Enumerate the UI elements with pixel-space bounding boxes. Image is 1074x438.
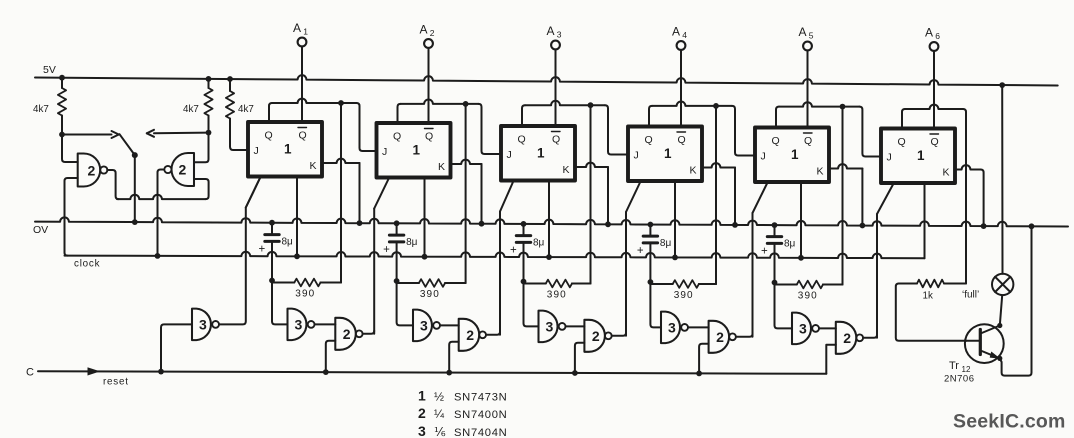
wire A4 to Qbar — [680, 50, 682, 127]
label clock — [74, 259, 100, 270]
wire FF6 clock pin riser — [924, 182, 926, 184]
wire gate 2 output stage 4 — [736, 334, 753, 337]
terminal A5 circle — [803, 42, 812, 51]
svg-text:2: 2 — [716, 329, 724, 345]
flip-flop 1 (SN7473 half) box — [248, 122, 322, 177]
wire clock to FF4 clock pin — [674, 181, 676, 257]
wire 5V to lamp — [1001, 85, 1003, 274]
svg-text:J: J — [382, 146, 387, 158]
NAND gate 3 stage 5 — [792, 313, 819, 345]
svg-text:¼: ¼ — [434, 407, 445, 421]
svg-text:Q: Q — [804, 135, 812, 147]
flip-flop 5 labels — [761, 133, 824, 178]
terminal A4 circle — [677, 41, 686, 50]
svg-text:1: 1 — [284, 142, 292, 157]
svg-text:2: 2 — [88, 163, 96, 179]
svg-text:8μ: 8μ — [660, 238, 672, 249]
label R4 390 — [674, 290, 694, 301]
transistor Tr12 2N706 — [965, 323, 1004, 363]
svg-text:SN7473N: SN7473N — [454, 392, 507, 404]
svg-text:3: 3 — [799, 320, 807, 336]
flip-flop 3 labels — [507, 132, 570, 177]
svg-text:Tr: Tr — [949, 360, 959, 372]
wire Q2 output bus to J of FF3 — [398, 100, 502, 155]
wire C3 junction to gate 3 input — [524, 282, 539, 327]
wire Q5 output bus to J of FF6 — [776, 102, 881, 156]
flip-flop 2 labels — [382, 129, 445, 174]
wire gate 2 output stage 5 — [863, 335, 877, 338]
switch S1 left contact wire — [62, 131, 119, 138]
svg-text:K: K — [690, 165, 697, 177]
wire gate 2 output stage 2 — [486, 332, 500, 335]
label C4 8u — [660, 238, 672, 249]
wire Q1 junction down to R1 390 — [321, 103, 342, 283]
label R2 4k7 — [183, 104, 199, 115]
wire A6 to Qbar — [933, 51, 935, 129]
wire K1 to 0V — [322, 159, 360, 223]
wire clock to FF5 clock pin — [800, 182, 802, 258]
wire C4 junction to gate 3 input — [650, 282, 661, 327]
label gate 2 stage 2 — [466, 327, 474, 343]
label gate 2b — [179, 162, 187, 178]
terminal A1 circle — [298, 38, 307, 47]
wire Q2 junction down to R2 390 — [445, 104, 466, 283]
wire 1k to base — [896, 284, 967, 341]
wire crossover to gate 2b lower input — [117, 179, 209, 199]
svg-text:6: 6 — [935, 31, 940, 41]
wire Q4 output bus to J of FF5 — [649, 101, 755, 155]
wire Q4 junction down to R4 390 — [699, 106, 716, 284]
lamp 'full' — [992, 274, 1013, 295]
wire C2 junction to gate 3 input — [397, 281, 413, 325]
svg-text:3: 3 — [295, 316, 303, 332]
wire Q1 output bus to J of FF2 — [269, 99, 377, 151]
wire A3 to Qbar — [555, 49, 557, 126]
svg-text:J: J — [887, 152, 892, 164]
wire FF5 clr from gate 2 stage 4 — [753, 184, 768, 337]
svg-text:SeekIC.com: SeekIC.com — [953, 411, 1066, 433]
label A5 — [799, 25, 814, 41]
wire K2 to 0V — [451, 160, 482, 224]
resistor R 1k — [899, 280, 966, 288]
wire K6 to 0V — [955, 165, 984, 226]
NAND gate 2 stage 4 — [709, 321, 736, 353]
svg-text:2: 2 — [430, 28, 435, 38]
resistor R2 4k7 — [204, 79, 212, 136]
label R1 390 — [295, 289, 315, 300]
capacitor C4 8u — [643, 225, 657, 285]
resistor R1 390 — [272, 279, 341, 287]
svg-text:K: K — [817, 166, 824, 178]
wire 5V supply rail — [35, 75, 1058, 88]
wire reset riser stage 2 — [449, 342, 459, 373]
wire K3 to 0V — [575, 163, 608, 225]
wire gate 3a output to FF1 clr — [219, 178, 260, 324]
resistor R2 390 — [397, 279, 466, 287]
watermark SeekIC.com — [953, 411, 1066, 433]
svg-text:3: 3 — [418, 423, 426, 438]
NAND gate 2 stage 2 — [459, 319, 486, 351]
NAND gate 3 stage 3 — [539, 311, 566, 343]
svg-text:1: 1 — [917, 148, 925, 163]
svg-text:3: 3 — [199, 316, 207, 332]
svg-text:8μ: 8μ — [533, 238, 545, 249]
svg-text:3: 3 — [420, 317, 428, 333]
wire C5 junction to gate 3 input — [775, 283, 793, 329]
wire Q5 junction down to R5 390 — [823, 107, 843, 285]
capacitor C2 8u — [389, 223, 403, 284]
wire clock line — [65, 252, 925, 261]
label C1 plus — [259, 244, 266, 256]
svg-text:5V: 5V — [43, 64, 56, 76]
wire 0V rail — [35, 217, 1068, 229]
switch S1 right contact wire — [147, 130, 209, 137]
label A3 — [547, 24, 562, 40]
legend 1 SN7473N — [418, 388, 507, 404]
svg-text:clock: clock — [74, 259, 100, 270]
svg-text:K: K — [438, 161, 445, 173]
svg-text:1: 1 — [418, 388, 426, 404]
resistor R1 4k7 — [58, 78, 66, 138]
flip-flop 5 (SN7473 half) box — [755, 128, 829, 183]
label 2N706 — [944, 374, 975, 385]
svg-text:J: J — [761, 151, 766, 163]
wire R1 to gate 2a upper input — [62, 135, 78, 163]
svg-text:2: 2 — [179, 162, 187, 178]
svg-text:SN7404N: SN7404N — [454, 427, 507, 438]
label 5V — [43, 64, 56, 76]
wire gate 3 to gate 2 stage 5 — [819, 327, 836, 329]
svg-text:A: A — [547, 24, 555, 38]
label C1 8u — [282, 237, 294, 248]
resistor R3 390 — [524, 280, 591, 288]
capacitor C1 8u — [265, 223, 279, 284]
svg-text:4: 4 — [682, 30, 687, 40]
label A4 — [672, 25, 687, 41]
NAND gate 2b — [164, 153, 194, 186]
label C5 8u — [784, 239, 796, 250]
svg-text:A: A — [799, 25, 807, 39]
svg-text:Q: Q — [552, 134, 560, 146]
capacitor C5 8u — [767, 225, 781, 285]
svg-text:K: K — [310, 160, 317, 172]
wire clock to FF3 clock pin — [548, 181, 550, 258]
svg-text:2N706: 2N706 — [944, 374, 975, 385]
svg-text:Q: Q — [772, 135, 780, 147]
svg-text:2: 2 — [466, 327, 474, 343]
wire gate 3 to gate 2 stage 4 — [688, 326, 709, 328]
svg-text:Q: Q — [299, 130, 307, 142]
wire FF6 clr from gate 2 stage 5 — [877, 185, 893, 338]
svg-text:390: 390 — [547, 290, 567, 301]
resistor R3 4k7 — [226, 79, 234, 147]
resistor R4 390 — [650, 280, 716, 288]
svg-text:+: + — [637, 245, 644, 257]
svg-text:3: 3 — [546, 318, 554, 334]
label R3 4k7 — [238, 104, 254, 115]
label gate 2 stage 3 — [592, 328, 600, 344]
label gate 3 stage 2 — [420, 317, 428, 333]
label C2 plus — [383, 244, 390, 256]
legend 2 SN7400N — [418, 405, 507, 421]
flip-flop 3 (SN7473 half) box — [501, 126, 575, 181]
wire reset riser stage 4 — [699, 344, 709, 374]
wire clock to FF6 clock pin — [924, 183, 926, 258]
label C2 8u — [406, 237, 418, 248]
flip-flop 1 labels — [254, 128, 317, 173]
svg-text:8μ: 8μ — [784, 239, 796, 250]
wire gate 2b output to clock — [158, 170, 165, 256]
label C3 8u — [533, 238, 545, 249]
flip-flop 6 labels — [887, 134, 950, 179]
wire clock to FF1 clock pin — [296, 177, 298, 257]
svg-text:Q: Q — [518, 134, 526, 146]
svg-text:Q: Q — [678, 134, 686, 146]
flip-flop 4 (SN7473 half) box — [628, 127, 702, 182]
label gate 2 stage 4 — [716, 329, 724, 345]
svg-text:J: J — [634, 150, 639, 162]
label R5 390 — [798, 291, 818, 302]
svg-text:3: 3 — [668, 319, 676, 335]
label C5 plus — [761, 246, 768, 258]
svg-text:A: A — [925, 26, 933, 40]
svg-text:390: 390 — [674, 290, 694, 301]
svg-text:Q: Q — [898, 136, 906, 148]
NAND gate 3a reset buffer — [192, 309, 219, 341]
svg-text:A: A — [293, 21, 301, 35]
NAND gate 2 stage 3 — [584, 320, 611, 352]
svg-text:+: + — [761, 246, 768, 258]
label gate 3 stage 5 — [799, 320, 807, 336]
label gate 2 stage 5 — [843, 330, 851, 346]
svg-text:+: + — [510, 245, 517, 257]
NAND gate 2 stage 1 — [335, 318, 362, 350]
wire reset riser stage 1 — [326, 341, 336, 372]
wire R3 to J input FF1 — [230, 147, 248, 151]
svg-text:4k7: 4k7 — [238, 104, 254, 115]
wire reset to gate 3a input — [161, 324, 192, 371]
label C4 plus — [637, 245, 644, 257]
capacitor C3 8u — [516, 224, 530, 285]
wire gate 2a lower input to clock — [65, 178, 78, 256]
svg-text:5: 5 — [809, 31, 814, 41]
wire FF2 clr from gate 2 stage 1 — [374, 179, 388, 334]
flip-flop 4 labels — [634, 132, 697, 177]
svg-text:390: 390 — [798, 291, 818, 302]
resistor R5 390 — [775, 281, 843, 289]
svg-text:K: K — [943, 167, 950, 179]
label reset — [103, 377, 129, 388]
NAND gate 2a — [78, 154, 108, 187]
label 0V — [33, 224, 48, 236]
flip-flop 2 (SN7473 half) box — [377, 123, 451, 178]
label R 1k — [923, 291, 933, 302]
wire FF1 clr diagonal — [246, 178, 260, 208]
label gate 3a — [199, 316, 207, 332]
svg-text:+: + — [383, 244, 390, 256]
NAND gate 3 stage 4 — [661, 312, 688, 344]
svg-text:Q: Q — [265, 130, 273, 142]
label A2 — [420, 23, 435, 39]
terminal A6 circle — [930, 42, 939, 51]
wire C1 junction to gate 3 input — [272, 281, 288, 325]
legend 3 SN7404N — [418, 423, 507, 438]
wire switch common to 0V — [134, 155, 136, 222]
wire gate 3 to gate 2 stage 3 — [566, 325, 585, 327]
label gate 2 stage 1 — [343, 326, 351, 342]
wire K5 to 0V — [829, 164, 862, 225]
label A6 — [925, 26, 940, 42]
svg-text:390: 390 — [420, 289, 440, 300]
svg-text:+: + — [259, 244, 266, 256]
svg-text:SN7400N: SN7400N — [454, 409, 507, 421]
label full — [962, 290, 979, 301]
svg-text:⅙: ⅙ — [434, 425, 446, 438]
svg-text:2: 2 — [343, 326, 351, 342]
svg-text:1: 1 — [413, 143, 421, 158]
svg-text:K: K — [563, 164, 570, 176]
wire A1 to Qbar — [301, 46, 303, 122]
NAND gate 3 stage 2 — [413, 310, 440, 342]
svg-text:OV: OV — [33, 224, 48, 236]
label C3 plus — [510, 245, 517, 257]
wire reset line with arrow — [38, 368, 826, 376]
wire A2 to Qbar — [428, 48, 430, 123]
label R3 390 — [547, 290, 567, 301]
wire gate 3 to gate 2 stage 2 — [440, 324, 459, 326]
svg-text:A: A — [672, 25, 680, 39]
wire FF3 clr from gate 2 stage 2 — [500, 182, 513, 335]
label R1 4k7 — [33, 104, 49, 115]
wire clock to FF2 clock pin — [424, 178, 426, 257]
svg-text:390: 390 — [295, 289, 315, 300]
label R2 390 — [420, 289, 440, 300]
switch S1 arm — [120, 134, 138, 158]
svg-text:1: 1 — [664, 146, 672, 161]
wire Q3 output bus to J of FF4 — [522, 101, 628, 155]
wire reset to gate 2e lower input — [826, 345, 836, 374]
flip-flop 6 (SN7473 half) box — [881, 129, 955, 184]
svg-text:‘full’: ‘full’ — [962, 290, 979, 301]
svg-text:Q: Q — [393, 131, 401, 143]
svg-text:J: J — [507, 149, 512, 161]
svg-text:1: 1 — [303, 27, 308, 37]
NAND gate 3 stage 1 — [288, 309, 315, 341]
wire FF4 clr from gate 2 stage 3 — [626, 183, 640, 336]
svg-text:Q: Q — [645, 134, 653, 146]
svg-text:2: 2 — [843, 330, 851, 346]
label Tr12 — [949, 360, 971, 374]
wire K4 to 0V — [702, 163, 735, 225]
svg-text:1: 1 — [791, 147, 799, 162]
terminal A2 circle — [424, 39, 433, 48]
svg-text:Q: Q — [931, 136, 939, 148]
wire gate 2a output crossover — [107, 170, 118, 199]
label gate 3 stage 1 — [295, 316, 303, 332]
svg-text:J: J — [254, 145, 259, 157]
svg-text:½: ½ — [434, 390, 444, 404]
wire A5 to Qbar — [807, 50, 809, 127]
svg-text:1k: 1k — [923, 291, 933, 302]
svg-text:2: 2 — [418, 405, 426, 421]
label C — [26, 367, 34, 379]
wire gate 3 to gate 2 stage 1 — [315, 323, 336, 325]
wire emitter to 0V — [1000, 226, 1032, 375]
svg-text:3: 3 — [557, 30, 562, 40]
svg-text:Q: Q — [425, 131, 433, 143]
svg-text:reset: reset — [103, 377, 129, 388]
terminal A3 circle — [551, 41, 560, 50]
NAND gate 2 stage 5 — [836, 322, 863, 354]
svg-text:C: C — [26, 367, 34, 379]
wire gate 2 output stage 3 — [612, 333, 626, 336]
wire collector to lamp — [1000, 295, 1002, 325]
svg-text:4k7: 4k7 — [183, 104, 199, 115]
label gate 3 stage 3 — [546, 318, 554, 334]
svg-text:8μ: 8μ — [406, 237, 418, 248]
svg-text:4k7: 4k7 — [33, 104, 49, 115]
svg-text:2: 2 — [592, 328, 600, 344]
wire Q3 junction down to R3 390 — [572, 105, 591, 283]
svg-text:1: 1 — [537, 146, 545, 161]
wire reset riser stage 3 — [575, 343, 585, 373]
label gate 2a — [88, 163, 96, 179]
wire gate 2 output stage 1 — [363, 331, 375, 334]
svg-text:A: A — [420, 23, 428, 37]
wire R2 to gate 2b upper input — [194, 133, 209, 163]
label A1 — [293, 21, 308, 37]
label gate 3 stage 4 — [668, 319, 676, 335]
wire Q6 to resistor 1k — [902, 105, 966, 284]
svg-text:8μ: 8μ — [282, 237, 294, 248]
